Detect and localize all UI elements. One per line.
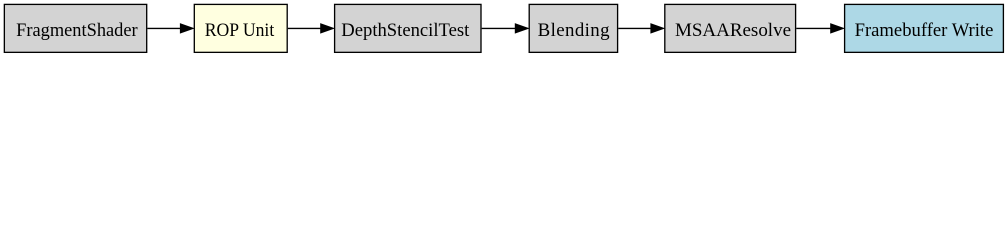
wire DepthStencilTest -> Blending xyxy=(482,27,516,29)
node FragmentShader box xyxy=(4,4,146,52)
svg-text:Framebuffer Write: Framebuffer Write xyxy=(855,20,994,41)
wire FragmentShader -> ROP Unit xyxy=(147,27,181,29)
node ROP Unit box xyxy=(194,4,287,52)
arrowhead FragmentShader -> ROP Unit xyxy=(180,24,193,33)
wire MSAAResolve -> Framebuffer Write xyxy=(796,27,831,29)
wire ROP Unit -> DepthStencilTest xyxy=(288,27,321,29)
node DepthStencilTest box xyxy=(335,4,481,52)
svg-text:DepthStencilTest: DepthStencilTest xyxy=(341,20,470,41)
arrowhead Blending -> MSAAResolve xyxy=(651,24,664,33)
node Framebuffer Write box xyxy=(845,4,1004,52)
node Blending box xyxy=(529,4,617,52)
wire Blending -> MSAAResolve xyxy=(618,27,651,29)
svg-text:MSAAResolve: MSAAResolve xyxy=(675,20,791,41)
svg-text:ROP Unit: ROP Unit xyxy=(205,20,275,41)
svg-text:FragmentShader: FragmentShader xyxy=(16,20,138,41)
arrowhead DepthStencilTest -> Blending xyxy=(515,24,528,33)
background xyxy=(0,0,1008,59)
arrowhead ROP Unit -> DepthStencilTest xyxy=(321,24,334,33)
arrowhead MSAAResolve -> Framebuffer Write xyxy=(831,24,844,33)
svg-text:Blending: Blending xyxy=(538,20,611,41)
node MSAAResolve box xyxy=(665,4,796,52)
